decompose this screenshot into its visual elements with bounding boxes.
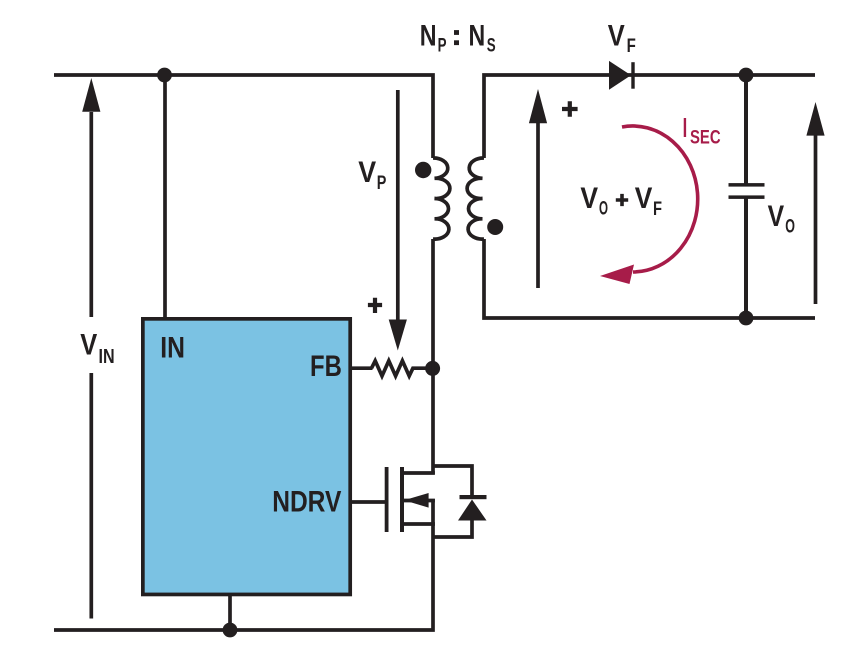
resistor R1 (feedback) <box>372 361 427 376</box>
node: ground junction <box>223 623 238 638</box>
current loop arrow ISEC (crimson arc) <box>600 126 698 284</box>
wire: IN pin drop <box>163 75 167 319</box>
MOSFET Q1 gate lead <box>352 500 385 504</box>
svg-text:P: P <box>377 173 387 194</box>
svg-text:V: V <box>580 182 598 215</box>
svg-text:N: N <box>469 20 486 53</box>
MOSFET Q1 channel bar <box>400 467 404 532</box>
IC U1 controller box <box>143 319 350 595</box>
wire: IC ground pin drop <box>228 594 232 630</box>
svg-text:P: P <box>438 35 447 56</box>
MOSFET Q1 gate bar <box>385 467 389 532</box>
label ISEC <box>683 112 721 149</box>
svg-text:O: O <box>785 217 795 238</box>
capacitor C1 (output) <box>729 75 765 318</box>
svg-text:V: V <box>768 200 785 233</box>
MOSFET Q1 drain stub <box>402 471 435 475</box>
diode D1 (VF) <box>609 61 635 90</box>
transformer T1 secondary winding <box>467 158 484 239</box>
node: FB junction <box>425 361 440 376</box>
annotation arrow VP (down) <box>389 90 407 351</box>
svg-text:V: V <box>608 20 625 53</box>
svg-text:SEC: SEC <box>690 128 721 149</box>
wire: primary vertical lower (winding to MOSFET drain) <box>431 239 435 474</box>
label NP : NS <box>420 20 496 57</box>
svg-text:V: V <box>635 182 653 215</box>
body diode branch wires <box>433 466 472 537</box>
svg-text:F: F <box>627 36 636 57</box>
annotation arrow VO (up, right edge) <box>806 102 824 304</box>
svg-text:IN: IN <box>160 332 185 365</box>
svg-text:NDRV: NDRV <box>272 485 341 518</box>
wire: secondary left vertical lower and bottom rail <box>484 239 815 318</box>
svg-text:V: V <box>80 329 97 362</box>
node: output bottom junction <box>739 311 754 326</box>
plus sign (secondary polarity) <box>562 101 578 116</box>
node: VIN junction <box>157 68 172 83</box>
wire: source vertical to bottom rail <box>54 499 433 630</box>
svg-text:IN: IN <box>99 346 115 368</box>
MOSFET Q1 source stub <box>402 522 435 526</box>
label VIN <box>80 329 114 369</box>
wire: top primary rail and primary vertical <box>54 75 433 158</box>
label VO (capacitor) <box>768 200 795 238</box>
wire: FB pin lead <box>352 366 373 370</box>
plus sign (VP polarity) <box>368 298 382 313</box>
svg-text:F: F <box>653 199 662 220</box>
svg-text:I: I <box>683 112 688 143</box>
svg-text:N: N <box>420 20 437 53</box>
label VO + VF (loop voltage) <box>580 182 662 220</box>
svg-text:FB: FB <box>310 350 342 383</box>
label VF <box>608 20 636 57</box>
annotation arrow secondary loop (up) <box>529 89 547 288</box>
transformer T1 secondary polarity dot <box>487 219 503 235</box>
svg-text:S: S <box>487 36 496 57</box>
MOSFET Q1 bulk stub with arrow <box>404 493 435 508</box>
label VP <box>358 156 386 194</box>
svg-text:O: O <box>599 198 608 219</box>
wire: secondary top rail and left vertical upper <box>484 75 815 158</box>
transformer T1 primary polarity dot <box>415 162 431 178</box>
body diode D2 <box>458 495 487 521</box>
transformer T1 primary winding <box>433 158 450 239</box>
node: output top junction <box>739 68 754 83</box>
svg-text:V: V <box>358 156 376 189</box>
annotation arrow VIN (up) <box>82 78 100 619</box>
